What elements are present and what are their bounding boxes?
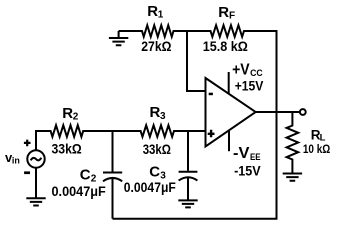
svg-text:R: R xyxy=(218,4,229,21)
svg-text:F: F xyxy=(229,10,235,21)
svg-text:2: 2 xyxy=(73,112,79,123)
svg-text:2: 2 xyxy=(91,173,97,184)
svg-text:-V: -V xyxy=(233,145,250,162)
svg-text:in: in xyxy=(12,156,20,166)
svg-text:33kΩ: 33kΩ xyxy=(143,142,171,157)
svg-text:EE: EE xyxy=(250,152,261,163)
svg-text:0.0047μF: 0.0047μF xyxy=(52,184,106,199)
svg-text:27kΩ: 27kΩ xyxy=(141,39,171,54)
svg-text:C: C xyxy=(80,166,91,183)
svg-text:33kΩ: 33kΩ xyxy=(52,141,82,156)
svg-text:10 kΩ: 10 kΩ xyxy=(303,142,331,156)
svg-text:R: R xyxy=(62,105,73,122)
svg-text:+V: +V xyxy=(232,62,250,79)
svg-text:R: R xyxy=(147,3,158,20)
svg-text:0.0047μF: 0.0047μF xyxy=(124,180,176,195)
svg-text:+15V: +15V xyxy=(235,77,264,93)
svg-text:C: C xyxy=(149,163,160,180)
svg-text:R: R xyxy=(150,104,161,121)
svg-text:3: 3 xyxy=(160,111,166,122)
svg-text:1: 1 xyxy=(158,10,164,21)
svg-text:-15V: -15V xyxy=(234,163,261,179)
svg-text:15.8 kΩ: 15.8 kΩ xyxy=(203,39,248,54)
